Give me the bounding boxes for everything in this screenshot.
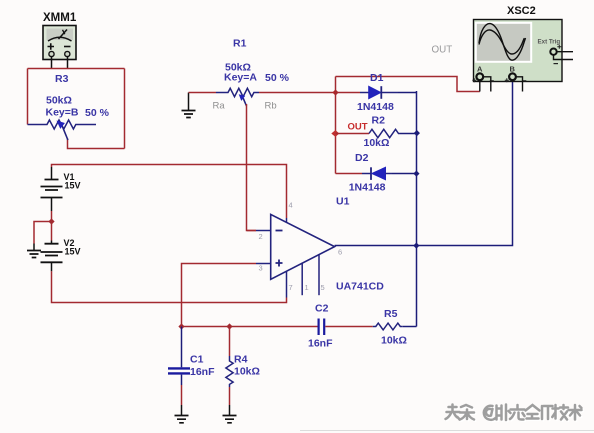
wire R2 to right rail [400,133,417,135]
svg-text:1N4148: 1N4148 [357,101,394,113]
svg-text:R1: R1 [233,38,247,50]
svg-text:15V: 15V [65,181,81,191]
svg-text:C2: C2 [315,303,329,315]
svg-text:50kΩ: 50kΩ [46,95,72,107]
svg-text:Key=B: Key=B [46,107,79,119]
watermark 头条 @卧龙会IT技术 [446,405,583,422]
potentiometer R3 [28,73,110,140]
junction dot rail-output [413,243,419,249]
svg-text:15V: 15V [65,247,81,257]
svg-text:R2: R2 [372,115,386,127]
wire R1 wiper down to pin2 [247,104,257,231]
wire G1 to R1 [189,92,217,94]
svg-text:XSC2: XSC2 [507,5,536,17]
svg-text:D1: D1 [370,72,384,84]
wire XMM1 loop top [28,68,125,70]
svg-text:1N4148: 1N4148 [349,182,386,194]
junction dot rail-D2 [413,170,419,176]
svg-text:Key=A: Key=A [224,72,257,84]
ground GC1 [175,405,189,423]
oscilloscope XSC2 [472,5,573,92]
resistor R2 [336,115,401,150]
wire D1 to right rail [398,92,417,94]
wire V1 top to pin4 [52,165,287,219]
diode D1 [336,72,399,113]
resistor R5 [373,308,407,347]
svg-text:16nF: 16nF [190,366,215,378]
wire XMM1 plus stub [51,57,53,69]
svg-text:16nF: 16nF [308,338,333,350]
svg-text:10kΩ: 10kΩ [234,366,260,378]
ground G1 near R1 [182,93,196,118]
wire V1 bottom to junction [51,211,53,241]
wire R5 to right rail corner [402,326,416,328]
svg-text:OUT: OUT [432,45,453,56]
svg-text:Ra: Ra [213,101,226,112]
capacitor C1 [168,327,215,386]
svg-text:Rb: Rb [265,101,277,112]
svg-text:4: 4 [289,201,293,210]
svg-text:50 %: 50 % [265,72,290,84]
wire node vertical D-network left rail [335,77,337,174]
multimeter XMM1 [43,12,77,60]
svg-text:OUT: OUT [348,122,368,133]
wire pin3 to bottom node [182,264,257,327]
svg-text:R3: R3 [55,73,69,85]
wire R1 right to node [259,92,336,94]
svg-text:10kΩ: 10kΩ [364,137,390,149]
ground GV [27,244,41,258]
potentiometer R1 [213,38,290,112]
junction dot node R4 [226,323,232,329]
svg-text:5: 5 [321,283,325,292]
svg-text:A: A [477,65,483,74]
wire C2 to R5 [325,326,373,328]
wire pin2 lead red join [247,230,256,232]
svg-text:U1: U1 [336,196,350,208]
wire D2 to right rail [392,173,417,175]
wire XMM1 minus stub [67,57,69,69]
svg-text:1: 1 [305,283,309,292]
wire R3 wiper to loop [68,139,125,149]
svg-text:2: 2 [259,232,263,241]
junction dot node A [178,323,184,329]
wire XMM1 loop right [124,69,126,149]
svg-text:C1: C1 [190,354,204,366]
capacitor C2 [308,303,333,350]
watermark bar line [300,430,594,432]
battery V2 [41,238,81,271]
battery V1 [41,167,81,211]
svg-text:10kΩ: 10kΩ [381,335,407,347]
svg-text:R5: R5 [384,308,398,320]
wire C1 to ground [181,385,183,405]
junction dot V1-V2 [48,218,54,224]
diode D2 [336,152,393,194]
svg-text:6: 6 [338,248,342,257]
wire junction to ground GV [34,222,52,244]
resistor R4 [226,327,260,388]
svg-text:B: B [510,65,516,74]
svg-text:Ext Trig: Ext Trig [538,39,561,46]
svg-text:50 %: 50 % [85,107,110,119]
wire top to scope A [336,77,480,92]
ground GR4 [223,405,237,423]
wire output to scope B [335,80,513,246]
svg-text:R4: R4 [234,354,248,366]
junction dot R1-rail [332,89,338,95]
wire XMM1 loop left [27,69,29,125]
svg-text:7: 7 [289,283,293,292]
junction dot rail-R2 [414,130,420,136]
svg-text:3: 3 [259,264,263,273]
wire right rail vertical [416,91,418,327]
svg-text:XMM1: XMM1 [43,12,77,24]
svg-text:UA741CD: UA741CD [336,281,384,293]
connector arrow OUT [331,130,339,137]
wire bottom rail to C2 [182,326,319,328]
svg-text:D2: D2 [355,152,369,164]
wire V2 bottom to pin7 [52,271,287,302]
wire R4 to ground [229,387,231,405]
op-amp U1 [256,196,384,298]
